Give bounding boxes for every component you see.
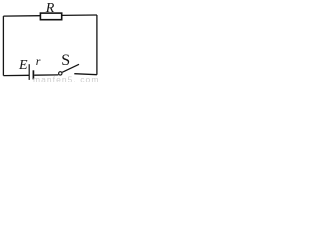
svg-text:E: E <box>18 58 28 73</box>
svg-text:R: R <box>45 1 55 16</box>
svg-text:r: r <box>36 54 41 68</box>
svg-text:S: S <box>61 52 70 69</box>
svg-text:manfen5. com: manfen5. com <box>33 75 99 82</box>
